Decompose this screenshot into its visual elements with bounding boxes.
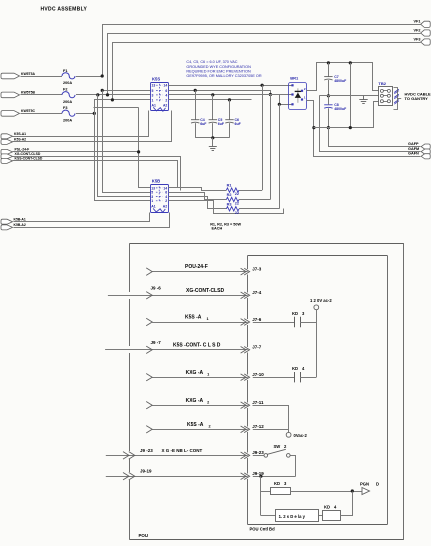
- svg-text:GROUNDED WYE CONFIGURATION: GROUNDED WYE CONFIGURATION: [186, 65, 251, 69]
- wire delay to KD4: [319, 515, 323, 517]
- svg-text:F3: F3: [63, 106, 67, 110]
- wire BR1 minus output to GAFN: [307, 101, 421, 157]
- svg-text:KD: KD: [274, 481, 280, 486]
- svg-text:KW5T5A: KW5T5A: [21, 72, 35, 76]
- svg-text:2: 2: [165, 98, 167, 102]
- wire delay branch: [261, 515, 276, 517]
- svg-text:A1: A1: [152, 104, 156, 108]
- svg-text:200A: 200A: [63, 81, 72, 85]
- svg-text:POU: POU: [139, 533, 149, 538]
- wire net B down to K5B pin 3: [98, 95, 151, 197]
- node bus link bottom: [349, 126, 352, 129]
- wire signal row J7-7: [105, 349, 248, 351]
- wire K5B pin 2 return: [169, 201, 284, 214]
- svg-text:6uF: 6uF: [200, 122, 207, 126]
- wire K5S pin 4 to BR1 AC3: [169, 95, 293, 105]
- node F1/VF1 junction: [101, 74, 104, 77]
- svg-text:200A: 200A: [63, 100, 72, 104]
- wire K5S A2 stub: [13, 111, 172, 142]
- svg-text:F1: F1: [63, 69, 67, 73]
- node C4 tap: [194, 89, 197, 92]
- wire riser A: [262, 85, 264, 190]
- svg-text:KD: KD: [292, 366, 298, 371]
- box POU enclosure: [129, 244, 131, 293]
- wire K5B A2 to tag: [14, 213, 170, 228]
- node BR1 minus rail junction: [312, 126, 315, 129]
- capacitor C5 6uF: [209, 119, 217, 121]
- wire F1 to node: [76, 76, 102, 78]
- wire J7-12 join: [253, 429, 289, 431]
- connector VF2: [421, 30, 431, 36]
- svg-text:J7-6: J7-6: [252, 317, 262, 322]
- wire F3 to riser: [76, 113, 94, 115]
- svg-text:1. 2 s D e la y: 1. 2 s D e la y: [279, 514, 306, 519]
- wire K5B pin 6 to R2: [169, 193, 227, 200]
- wire cable brace: [394, 88, 398, 110]
- capacitor C4 6uF: [191, 119, 199, 121]
- node J9-19 junction: [259, 475, 262, 478]
- wire C7 bottom stub: [328, 80, 330, 96]
- svg-text:XG-CONT-CLSD: XG-CONT-CLSD: [186, 288, 224, 294]
- wire row J9-23: [106, 455, 248, 457]
- wire signal row J7-6: [152, 322, 248, 324]
- wire KD3 coil feed: [261, 491, 270, 493]
- svg-text:KD: KD: [324, 505, 330, 510]
- wire C8 bottom stub: [328, 108, 330, 127]
- svg-text:2: 2: [165, 199, 167, 203]
- node delay rejoin: [351, 489, 354, 492]
- wire KD3 out to PGND: [290, 491, 361, 493]
- svg-text:22: 22: [235, 202, 239, 206]
- node VF2 junction: [106, 93, 109, 96]
- svg-text:J9 -7: J9 -7: [151, 340, 162, 345]
- wire R1 to riser A: [239, 190, 262, 192]
- svg-text:X G -E NB L- CONT: X G -E NB L- CONT: [162, 448, 203, 453]
- svg-text:GAFP: GAFP: [408, 142, 419, 146]
- node F3 junction: [93, 112, 96, 115]
- wire J9-19 internal: [253, 476, 296, 478]
- wire K5S pin 2 row: [168, 99, 251, 101]
- connector GAFN: [421, 154, 430, 159]
- svg-text:200A: 200A: [63, 119, 72, 123]
- node riser C junction: [278, 103, 281, 106]
- terminal 0Vac-2: [286, 432, 291, 437]
- svg-text:PGN: PGN: [360, 482, 369, 487]
- wire DC minus rail: [314, 102, 379, 128]
- label TB2 wire marks: [394, 89, 399, 92]
- wire signal row J7-3: [152, 271, 248, 273]
- wire K5S pin 5 row: [102, 90, 150, 92]
- svg-text:EACH: EACH: [212, 226, 223, 230]
- wire BR1 plus output: [307, 63, 379, 91]
- wire C4 column: [195, 90, 197, 119]
- svg-text:J7-10: J7-10: [252, 372, 264, 377]
- fuse F1 200A: [62, 73, 75, 79]
- svg-text:K5S -A: K5S -A: [187, 422, 204, 428]
- wire K5S pin 14 to BR1 AC1: [168, 85, 292, 87]
- capacitor C8 4800uF: [324, 104, 332, 106]
- wire 120Vac vertical: [316, 309, 318, 377]
- svg-text:R2: R2: [227, 193, 232, 197]
- wire GAFP drop: [329, 128, 421, 147]
- fuse F2 200A: [62, 92, 75, 98]
- wire VF2 top loop: [108, 34, 421, 95]
- wire VF3 top loop: [113, 43, 421, 100]
- wire C8 top stub: [328, 96, 330, 105]
- svg-text:K5S-A1: K5S-A1: [14, 132, 26, 136]
- wire riser C: [279, 104, 281, 209]
- connector KSS-CONT-CLSD: [1, 158, 13, 163]
- node arrow into J7-3: [146, 268, 152, 275]
- svg-text:D: D: [376, 482, 379, 487]
- node riser B junction: [269, 93, 272, 96]
- svg-text:K5S: K5S: [152, 77, 160, 82]
- wire mid rail ground net: [319, 95, 379, 97]
- svg-text:A2: A2: [163, 104, 167, 108]
- svg-text:J7-7: J7-7: [252, 345, 262, 350]
- wire phase B to fuse F2: [21, 94, 63, 96]
- node arrow into J7-4: [146, 292, 152, 299]
- wire row J9-19: [106, 476, 248, 478]
- svg-text:J9-19: J9-19: [140, 469, 152, 474]
- wire XG-CONT row: [13, 157, 181, 191]
- svg-text:K5S -CONT- C L S D: K5S -CONT- C L S D: [173, 342, 221, 348]
- resistor R3 22 ohm: [226, 207, 239, 211]
- svg-text:6uF: 6uF: [235, 122, 242, 126]
- svg-text:K5S -A: K5S -A: [185, 315, 202, 321]
- wire riser F3 to K5S pin 1 row: [95, 100, 151, 114]
- fuse F3 200A: [62, 110, 75, 116]
- wire F2 to K5S pin 3: [76, 94, 151, 96]
- svg-text:F2: F2: [63, 88, 67, 92]
- capacitor C6 6uF: [225, 119, 233, 121]
- wire J9-19 drop: [260, 476, 262, 515]
- ground DC midpoint ground symbol: [363, 96, 365, 100]
- svg-text:KXG -A: KXG -A: [186, 370, 204, 376]
- wire KSS-CONT row: [13, 161, 178, 188]
- svg-text:22: 22: [235, 192, 239, 196]
- svg-text:1 2 0V ac-2: 1 2 0V ac-2: [310, 298, 332, 303]
- node entry arrows J9-19: [123, 472, 129, 479]
- svg-text:A1: A1: [151, 205, 155, 209]
- wire K5S A1 stub: [13, 111, 149, 137]
- svg-text:3: 3: [152, 93, 154, 97]
- wire J7-11 to 0Vac: [253, 406, 289, 433]
- wire C6 bottom: [229, 123, 231, 138]
- block 1.2s delay: [276, 510, 319, 522]
- connector VF1: [421, 21, 431, 27]
- svg-text:KXG -A: KXG -A: [186, 398, 204, 404]
- wire phase A to fuse F1: [21, 76, 63, 78]
- svg-text:J9-23: J9-23: [252, 450, 264, 455]
- wire R3 to riser C: [239, 208, 279, 210]
- svg-text:2: 2: [209, 425, 211, 429]
- node PSL junction: [137, 150, 140, 153]
- svg-text:POU-24-F: POU-24-F: [185, 264, 208, 270]
- connector KW5T5B: [1, 92, 20, 98]
- svg-text:1: 1: [207, 372, 209, 376]
- connector K5S-A2: [1, 139, 13, 144]
- svg-text:GAFN: GAFN: [408, 152, 419, 156]
- resistor R1 22 ohm: [226, 188, 239, 192]
- svg-text:REQUIRED FOR EMC PREVENTION: REQUIRED FOR EMC PREVENTION: [186, 69, 251, 73]
- svg-text:22: 22: [235, 211, 239, 215]
- wire K5B pin 14 to R1: [169, 188, 227, 191]
- svg-text:1: 1: [151, 199, 153, 203]
- svg-text:14: 14: [164, 84, 168, 88]
- svg-text:GE97F9595, OR MALLORY C3203705: GE97F9595, OR MALLORY C3203705E OR: [186, 74, 261, 78]
- svg-text:5: 5: [152, 89, 154, 93]
- node DC minus rail C8 junction: [327, 126, 330, 129]
- svg-text:XG-CONT-CLSD: XG-CONT-CLSD: [15, 152, 41, 156]
- svg-text:HVDC ASSEMBLY: HVDC ASSEMBLY: [41, 6, 88, 12]
- node arrow into J7-6: [146, 318, 152, 325]
- svg-text:J7-4: J7-4: [252, 290, 262, 295]
- connector XG-CONT-CLSD: [1, 154, 13, 159]
- node mid rail C7/C8 junction: [327, 94, 330, 97]
- node VF3 junction: [111, 98, 114, 101]
- ground wye ground symbol: [209, 146, 217, 148]
- connector VF3: [421, 39, 431, 45]
- svg-text:A2: A2: [163, 205, 167, 209]
- svg-text:K5S-A2: K5S-A2: [14, 138, 26, 142]
- svg-text:4800uF: 4800uF: [334, 107, 347, 111]
- svg-text:J9-19: J9-19: [252, 471, 264, 476]
- wire C5 column: [212, 95, 214, 120]
- svg-text:6uF: 6uF: [218, 122, 225, 126]
- node cap rail center: [211, 136, 214, 139]
- wire phase C to fuse F3: [21, 113, 63, 115]
- wire PSL-24-F row: [13, 151, 139, 153]
- connector KW5T5C: [1, 111, 20, 117]
- svg-text:TB2: TB2: [378, 81, 386, 86]
- wire K5B pin 4 to R3: [169, 197, 227, 209]
- svg-text:13: 13: [152, 84, 156, 88]
- connector PSL-24-F: [1, 149, 13, 154]
- wire bus vertical link: [350, 63, 352, 128]
- wire K5S pin 6 to BR1 AC2: [169, 91, 293, 95]
- node C5 tap: [211, 93, 214, 96]
- wire signal row J7-10: [152, 377, 248, 379]
- svg-text:KD: KD: [292, 311, 298, 316]
- svg-text:K5B: K5B: [152, 179, 160, 184]
- connector KW5T5A: [1, 73, 20, 79]
- svg-text:BR1: BR1: [290, 76, 299, 81]
- svg-text:J7-11: J7-11: [252, 400, 264, 405]
- connector GAFM: [421, 149, 430, 154]
- wire VF1 top loop: [103, 25, 421, 77]
- svg-text:1: 1: [152, 98, 154, 102]
- node F2 branch down: [96, 93, 99, 96]
- box POU control board: [247, 255, 249, 269]
- svg-text:VF2: VF2: [414, 28, 421, 32]
- svg-text:TO GANTRY: TO GANTRY: [405, 96, 429, 101]
- node arrow into J7-7: [146, 346, 152, 353]
- wire net C down to K5B pin 1: [95, 114, 151, 201]
- node bus tap: [349, 61, 352, 64]
- wire cap common rail: [195, 137, 229, 139]
- wire SW2 to J9-19 net: [291, 456, 296, 477]
- wire K5B A1 to tag: [14, 213, 150, 222]
- svg-text:GAFM: GAFM: [408, 147, 419, 151]
- svg-text:1: 1: [207, 317, 209, 321]
- svg-text:4800uF: 4800uF: [334, 79, 347, 83]
- resistor R2 22 ohm: [226, 197, 239, 201]
- wire KD4 up to rejoin: [341, 492, 353, 516]
- svg-text:SW: SW: [274, 444, 281, 449]
- connector K5S-A1: [1, 134, 13, 139]
- svg-text:R3: R3: [227, 202, 232, 206]
- svg-text:C4, C5, C6 = 6.0 UF, 370 VAC: C4, C5, C6 = 6.0 UF, 370 VAC: [186, 60, 237, 64]
- svg-text:J7-3: J7-3: [252, 266, 262, 271]
- wire C4 bottom: [195, 123, 197, 138]
- wire cap rail to ground: [212, 138, 214, 146]
- connector K5B-A2: [1, 225, 13, 230]
- node C6 tap: [228, 98, 231, 101]
- node C7 top tap: [327, 61, 330, 64]
- svg-text:R1: R1: [227, 184, 232, 188]
- wire signal row J7-12: [152, 429, 248, 431]
- svg-text:K5B-A1: K5B-A1: [14, 218, 26, 222]
- svg-text:J9 -6: J9 -6: [151, 286, 162, 291]
- wire R2 to riser B: [239, 199, 270, 201]
- node arrow into J7-11: [146, 401, 152, 408]
- svg-text:VF1: VF1: [414, 20, 421, 24]
- svg-text:VF3: VF3: [414, 37, 421, 41]
- svg-text:0Vac-2: 0Vac-2: [294, 433, 308, 438]
- svg-text:6: 6: [165, 89, 167, 93]
- connector GAFP: [421, 144, 430, 149]
- svg-text:POU Cntl Bd: POU Cntl Bd: [250, 527, 276, 532]
- node entry arrows J9-23: [123, 452, 129, 459]
- svg-text:4: 4: [165, 93, 167, 97]
- wire GAFM drop: [320, 96, 421, 152]
- wire signal row J7-4: [108, 295, 248, 297]
- wire signal row J7-11: [152, 405, 248, 407]
- svg-text:2: 2: [207, 400, 209, 404]
- wire riser B: [270, 95, 272, 200]
- capacitor C7 4800uF: [324, 76, 332, 78]
- wire PSL net down to K5B pin 13: [139, 108, 151, 188]
- svg-text:J7-12: J7-12: [252, 424, 264, 429]
- connector K5B-A1: [1, 219, 13, 224]
- svg-text:KW5T5C: KW5T5C: [21, 109, 35, 113]
- svg-text:J9 -23: J9 -23: [140, 448, 153, 453]
- svg-text:K5B-A2: K5B-A2: [14, 223, 26, 227]
- wire aux row 107.6: [94, 107, 139, 109]
- wire C5 bottom: [212, 123, 214, 138]
- node DC riser A junction: [261, 84, 264, 87]
- node arrow into J7-12: [146, 426, 152, 433]
- node arrow into J7-10: [146, 373, 152, 380]
- wire net A down to K5B pin 5: [103, 91, 151, 193]
- wire C7 top stub: [328, 63, 330, 77]
- wire C6 column: [229, 100, 231, 120]
- node F1 net to pin5: [101, 89, 104, 92]
